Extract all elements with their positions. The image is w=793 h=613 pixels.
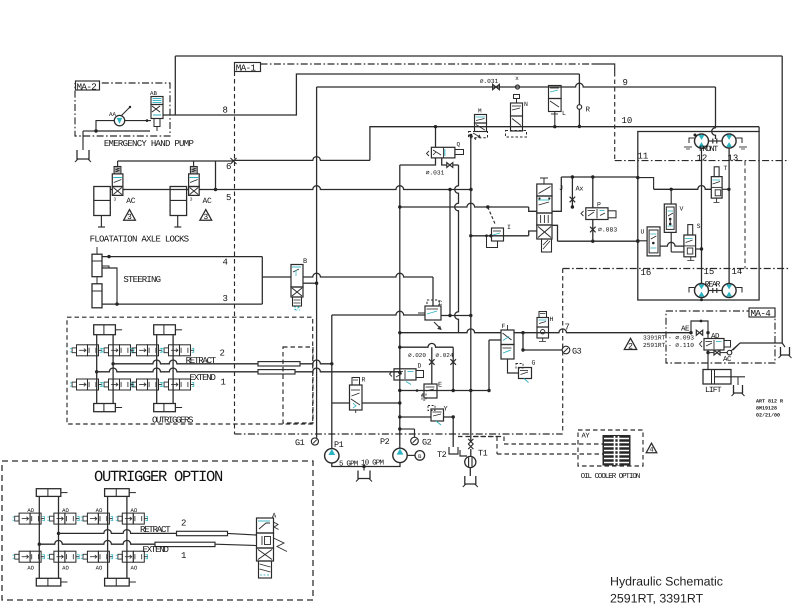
svg-text:P2: P2 — [380, 437, 390, 447]
svg-text:N: N — [524, 101, 528, 108]
svg-text:J: J — [559, 185, 563, 193]
svg-text:P1: P1 — [334, 440, 344, 450]
svg-text:STEERING: STEERING — [123, 275, 160, 285]
svg-text:MA-4: MA-4 — [751, 308, 772, 319]
svg-text:5: 5 — [226, 193, 231, 203]
svg-text:L: L — [562, 110, 566, 117]
svg-text:AO: AO — [27, 565, 34, 572]
svg-text:- ∅.110: - ∅.110 — [668, 342, 694, 349]
svg-text:MA-2: MA-2 — [77, 81, 97, 92]
svg-text:LIFT: LIFT — [705, 386, 722, 395]
svg-text:REAR: REAR — [705, 281, 721, 290]
svg-text:F: F — [502, 323, 506, 330]
svg-text:E: E — [438, 382, 442, 390]
svg-text:8: 8 — [223, 106, 228, 116]
svg-text:EXTEND: EXTEND — [190, 373, 216, 383]
svg-text:Ax: Ax — [576, 185, 584, 193]
svg-text:Hydraulic Schematic: Hydraulic Schematic — [610, 575, 723, 589]
svg-text:AO: AO — [96, 507, 103, 514]
svg-text:ART 812 R: ART 812 R — [756, 399, 783, 405]
svg-text:1: 1 — [181, 551, 186, 561]
svg-text:MA-1: MA-1 — [236, 63, 257, 74]
svg-text:AC: AC — [723, 355, 732, 364]
svg-text:3: 3 — [223, 294, 228, 304]
svg-text:AO: AO — [62, 565, 69, 572]
svg-text:FLOATATION AXLE LOCKS: FLOATATION AXLE LOCKS — [90, 235, 189, 245]
svg-text:AY: AY — [582, 432, 591, 440]
svg-text:8M19128: 8M19128 — [756, 406, 777, 412]
svg-text:02/21/00: 02/21/00 — [756, 413, 780, 419]
svg-text:S: S — [697, 223, 701, 230]
svg-text:AO: AO — [62, 507, 69, 514]
svg-text:T2: T2 — [437, 450, 447, 460]
svg-text:OIL COOLER OPTION: OIL COOLER OPTION — [581, 472, 640, 481]
svg-text:∅.020: ∅.020 — [408, 352, 426, 359]
svg-text:G1: G1 — [295, 438, 305, 448]
svg-text:∅.024: ∅.024 — [435, 352, 453, 359]
svg-text:G: G — [532, 360, 536, 367]
svg-text:2: 2 — [181, 519, 186, 529]
svg-text:R: R — [586, 106, 591, 114]
svg-text:2: 2 — [220, 348, 225, 358]
svg-text:3391RT: 3391RT — [643, 335, 666, 342]
svg-text:R: R — [362, 377, 366, 384]
svg-text:6: 6 — [226, 162, 231, 172]
svg-text:EMERGENCY HAND PUMP: EMERGENCY HAND PUMP — [104, 139, 194, 149]
svg-text:5 GPM: 5 GPM — [339, 459, 359, 468]
svg-text:∅.083: ∅.083 — [598, 227, 617, 234]
svg-text:10: 10 — [622, 116, 633, 126]
svg-text:I: I — [507, 224, 511, 231]
svg-text:2591RT, 3391RT: 2591RT, 3391RT — [610, 592, 704, 606]
svg-text:H: H — [550, 316, 554, 323]
svg-text:12: 12 — [697, 154, 708, 164]
svg-text:2591RT: 2591RT — [643, 342, 666, 349]
svg-text:RETRACT: RETRACT — [186, 356, 217, 366]
svg-text:T: T — [724, 165, 728, 172]
svg-text:B: B — [303, 258, 307, 266]
svg-text:G2: G2 — [422, 437, 432, 447]
svg-text:AO: AO — [96, 565, 103, 572]
svg-text:T1: T1 — [478, 448, 488, 458]
svg-text:10 GPM: 10 GPM — [361, 458, 385, 467]
svg-text:4: 4 — [649, 447, 653, 455]
svg-text:D: D — [418, 363, 422, 370]
svg-text:3: 3 — [203, 213, 208, 222]
svg-text:13: 13 — [728, 154, 739, 164]
svg-text:RETRACT: RETRACT — [140, 525, 171, 535]
svg-text:4: 4 — [223, 257, 228, 267]
svg-text:14: 14 — [732, 267, 743, 277]
svg-text:AE: AE — [681, 325, 690, 333]
svg-text:15: 15 — [704, 267, 715, 277]
svg-text:AO: AO — [131, 565, 138, 572]
svg-text:9: 9 — [623, 78, 628, 88]
svg-text:AA: AA — [109, 111, 116, 118]
svg-text:M: M — [478, 108, 482, 115]
svg-text:x: x — [515, 75, 519, 82]
svg-text:G3: G3 — [572, 346, 582, 356]
svg-text:EXTEND: EXTEND — [143, 545, 169, 555]
svg-text:Q: Q — [457, 141, 461, 148]
svg-text:1: 1 — [221, 377, 226, 387]
svg-text:16: 16 — [641, 268, 652, 278]
svg-text:V: V — [680, 206, 684, 213]
svg-text:2: 2 — [628, 342, 633, 351]
svg-text:3: 3 — [114, 196, 117, 202]
svg-text:OUTRIGGER OPTION: OUTRIGGER OPTION — [94, 468, 223, 486]
svg-text:∅.031: ∅.031 — [480, 78, 499, 85]
svg-text:AC: AC — [126, 197, 136, 206]
svg-text:U: U — [641, 229, 645, 236]
svg-text:AO: AO — [27, 507, 34, 514]
svg-text:∅.031: ∅.031 — [426, 170, 445, 177]
svg-text:7: 7 — [565, 323, 570, 333]
svg-text:3: 3 — [127, 213, 132, 222]
svg-text:AO: AO — [131, 507, 138, 514]
svg-text:AC: AC — [203, 197, 213, 206]
svg-text:3: 3 — [190, 196, 193, 202]
svg-text:- ∅.093: - ∅.093 — [668, 335, 694, 342]
svg-text:AD: AD — [711, 333, 720, 341]
svg-text:11: 11 — [638, 151, 649, 161]
svg-text:OUTRIGGERS: OUTRIGGERS — [152, 415, 193, 425]
